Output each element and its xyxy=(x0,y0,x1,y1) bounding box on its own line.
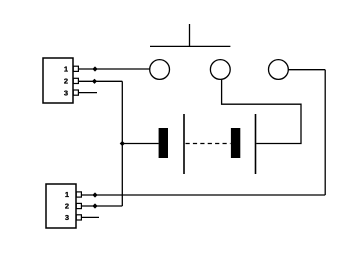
connector J2 body (bottom-left) xyxy=(46,184,76,228)
wire bus to J2.2 xyxy=(82,205,123,207)
battery BT1 positive plate cell 2 xyxy=(255,114,257,174)
wire bus tap to battery xyxy=(122,143,158,145)
svg-text:2: 2 xyxy=(64,77,68,86)
battery BT1 positive plate cell 1 xyxy=(183,114,185,174)
wire J2.3 stub xyxy=(82,216,100,218)
wire right bus vertical xyxy=(324,70,326,195)
pushbutton actuator stem xyxy=(189,24,191,46)
wire bottom run to J2.1 xyxy=(82,194,326,196)
wire vertical bus x=122 xyxy=(121,81,123,206)
svg-text:3: 3 xyxy=(64,88,68,97)
wire contact B to loop xyxy=(222,80,301,144)
svg-text:3: 3 xyxy=(65,213,69,222)
J1 pin 1 terminal xyxy=(73,66,78,71)
svg-text:1: 1 xyxy=(65,190,69,199)
pushbutton actuator bar xyxy=(150,45,230,47)
contact B (middle circle) xyxy=(210,60,230,80)
wire J1.1 to contact A xyxy=(78,68,149,70)
contact C (right circle) xyxy=(269,60,289,80)
junction on J2.2 wire xyxy=(92,203,97,208)
J2 pin 2 terminal xyxy=(76,203,81,208)
J1 pin 2 terminal xyxy=(73,78,78,83)
svg-text:1: 1 xyxy=(64,64,68,73)
wire J1.2 to bus corner xyxy=(78,80,122,82)
wire J1.3 stub xyxy=(78,92,97,94)
junction on J2.1 wire xyxy=(92,192,97,197)
svg-text:2: 2 xyxy=(65,202,69,211)
J2 pin 1 terminal xyxy=(76,192,81,197)
wire contact C to right bus xyxy=(289,69,326,71)
junction on J1.1 wire xyxy=(92,66,97,71)
connector J1 body (top-left) xyxy=(43,58,73,103)
battery BT1 negative plate cell 1 xyxy=(159,128,168,158)
junction on J1.2 wire xyxy=(92,79,97,84)
battery dashed link xyxy=(186,143,231,145)
J1 pin 3 terminal xyxy=(73,90,78,95)
battery BT1 negative plate cell 2 xyxy=(231,128,240,158)
J2 pin 3 terminal xyxy=(76,215,81,220)
junction battery tap xyxy=(120,141,125,146)
contact A (left circle) xyxy=(150,60,170,80)
